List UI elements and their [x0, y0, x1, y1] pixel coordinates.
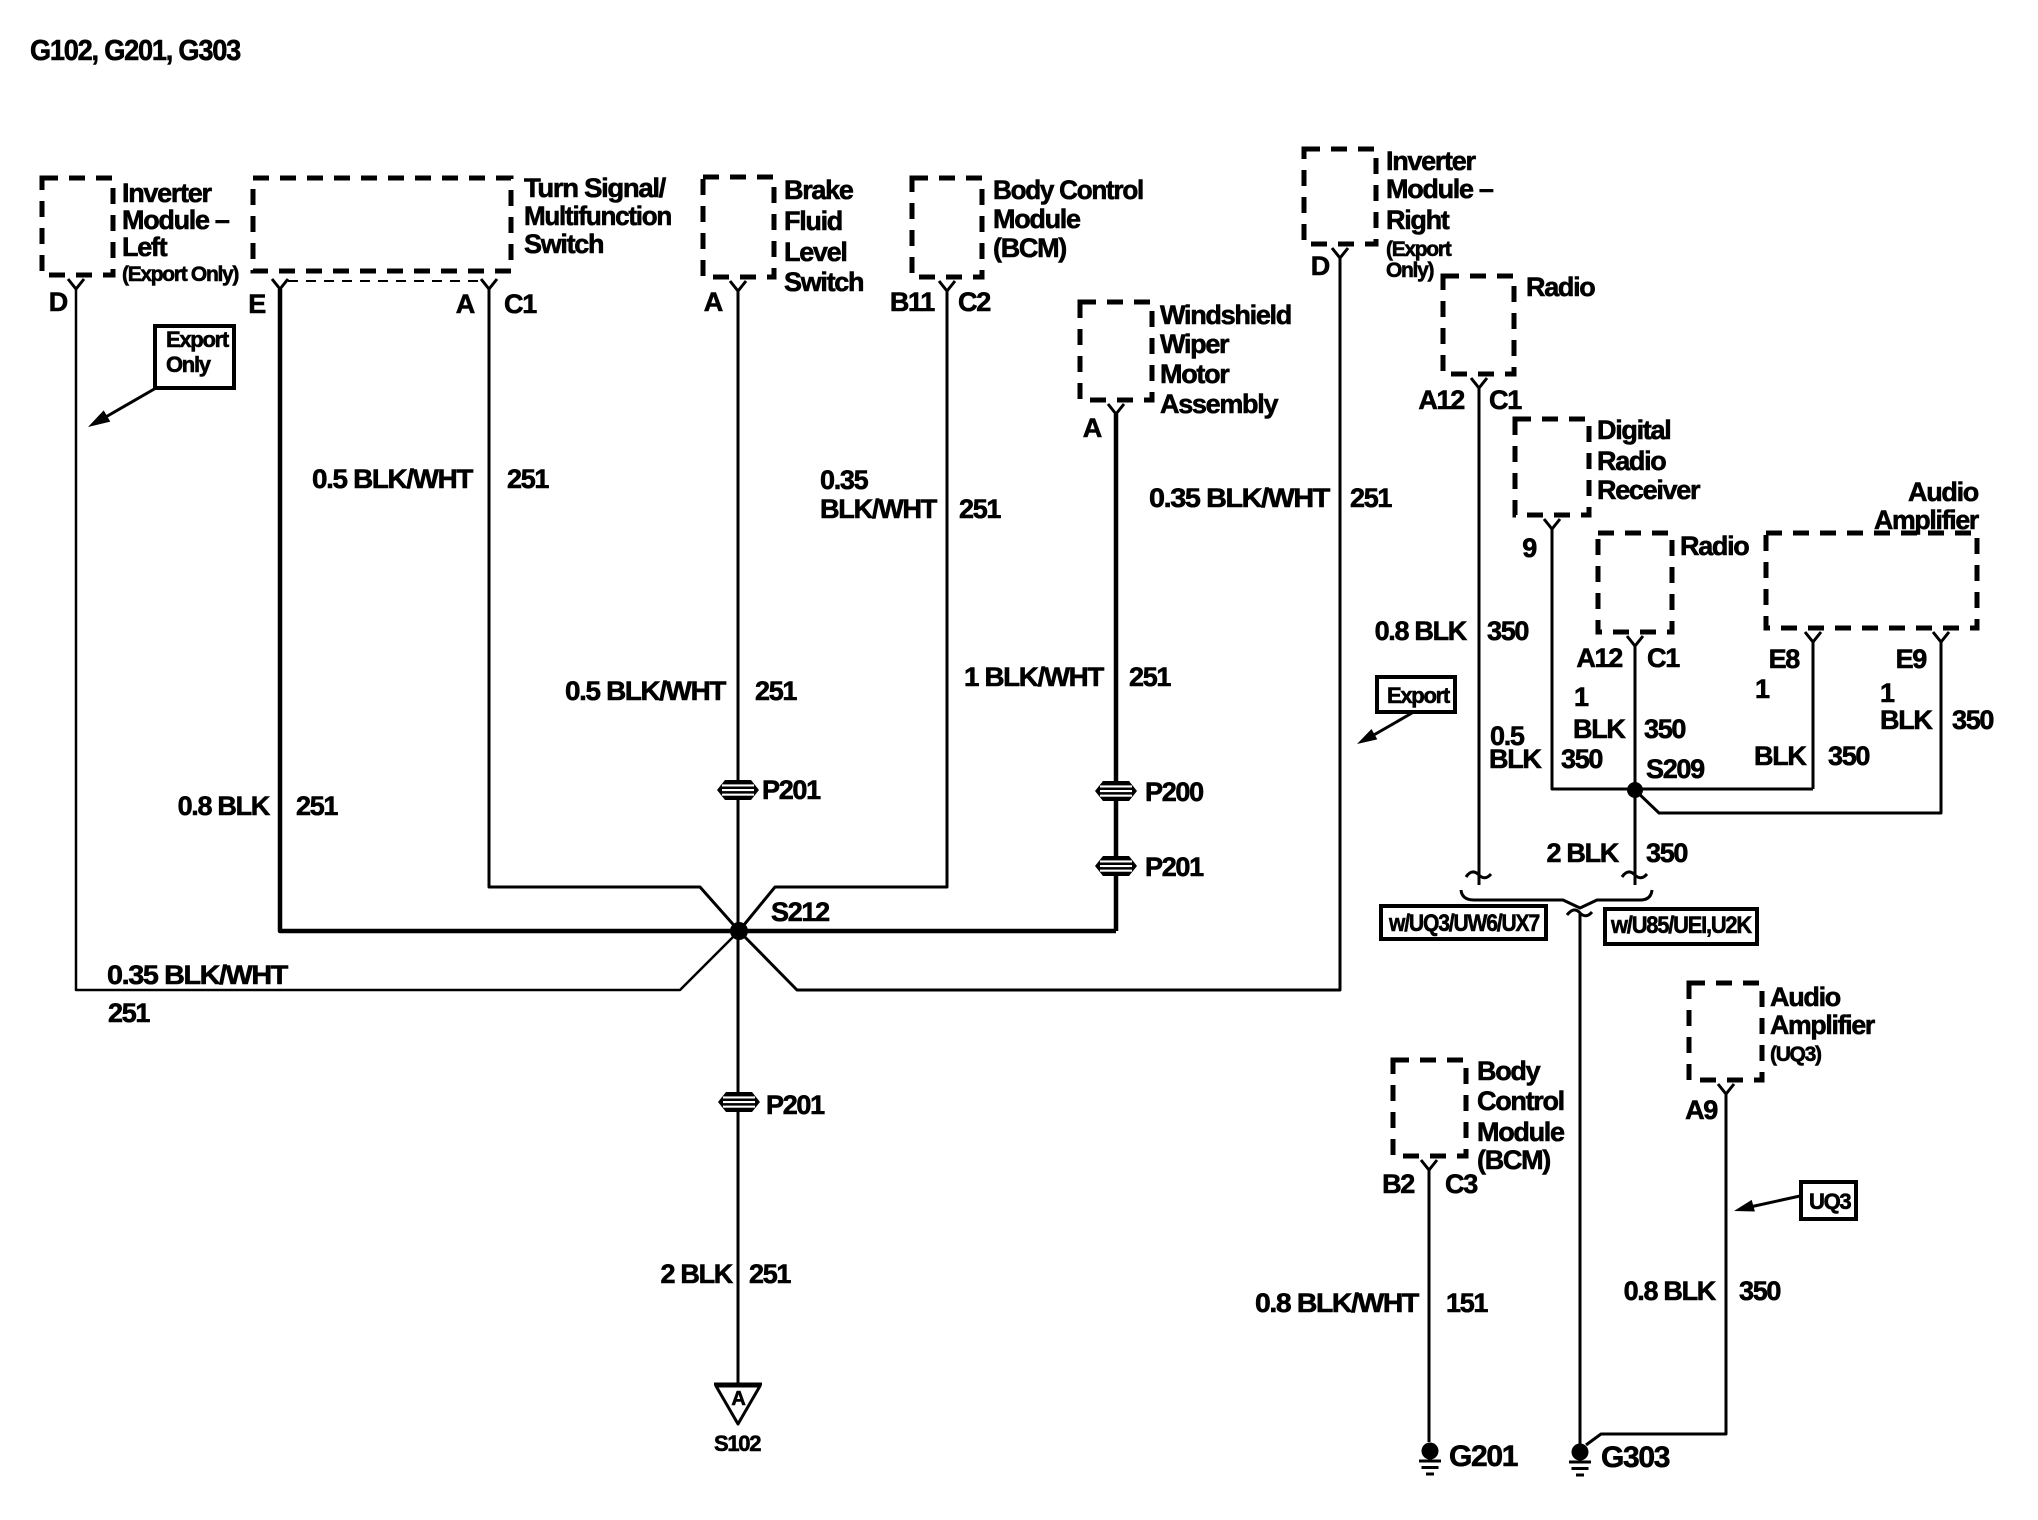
svg-text:(BCM): (BCM) [1477, 1145, 1550, 1175]
svg-text:251: 251 [755, 676, 797, 706]
svg-text:Module: Module [1477, 1117, 1565, 1147]
svg-text:S209: S209 [1646, 754, 1705, 784]
svg-text:251: 251 [296, 791, 338, 821]
svg-text:350: 350 [1561, 744, 1602, 774]
svg-text:E8: E8 [1769, 644, 1801, 674]
svg-text:B11: B11 [890, 287, 935, 317]
svg-text:2 BLK: 2 BLK [660, 1259, 733, 1289]
svg-text:251: 251 [749, 1259, 791, 1289]
svg-text:Receiver: Receiver [1597, 475, 1701, 505]
svg-text:A: A [456, 289, 475, 319]
svg-text:A12: A12 [1418, 385, 1464, 415]
svg-text:350: 350 [1828, 741, 1869, 771]
svg-text:Only): Only) [1386, 259, 1433, 282]
svg-text:Wiper: Wiper [1160, 329, 1230, 359]
svg-text:Motor: Motor [1160, 359, 1230, 389]
svg-text:0.8 BLK/WHT: 0.8 BLK/WHT [1255, 1288, 1420, 1318]
svg-text:G102, G201, G303: G102, G201, G303 [30, 35, 241, 67]
svg-text:BLK: BLK [1573, 714, 1626, 744]
svg-text:Body Control: Body Control [993, 175, 1143, 205]
svg-text:P201: P201 [1145, 852, 1204, 882]
svg-text:A: A [1083, 413, 1102, 443]
svg-text:Inverter: Inverter [1386, 146, 1476, 176]
svg-text:D: D [49, 287, 68, 317]
svg-text:350: 350 [1739, 1276, 1780, 1306]
svg-text:C3: C3 [1445, 1169, 1478, 1199]
svg-text:Radio: Radio [1680, 531, 1749, 561]
svg-text:A: A [731, 1388, 745, 1410]
svg-text:Module: Module [993, 204, 1081, 234]
svg-text:0.8 BLK: 0.8 BLK [1624, 1276, 1717, 1306]
svg-text:0.35 BLK/WHT: 0.35 BLK/WHT [107, 960, 289, 990]
svg-text:P200: P200 [1145, 777, 1203, 807]
svg-text:Radio: Radio [1526, 272, 1595, 302]
svg-text:251: 251 [959, 494, 1001, 524]
svg-text:0.35: 0.35 [820, 465, 869, 495]
svg-text:Control: Control [1477, 1086, 1564, 1116]
svg-text:(Export Only): (Export Only) [122, 263, 238, 286]
svg-text:251: 251 [507, 464, 549, 494]
svg-text:G201: G201 [1449, 1440, 1518, 1473]
svg-text:D: D [1311, 251, 1330, 281]
svg-text:w/U85/UEI,U2K: w/U85/UEI,U2K [1610, 912, 1753, 939]
svg-text:S212: S212 [771, 897, 829, 927]
svg-text:w/UQ3/UW6/UX7: w/UQ3/UW6/UX7 [1388, 910, 1540, 937]
svg-text:0.5 BLK/WHT: 0.5 BLK/WHT [565, 676, 727, 706]
svg-text:350: 350 [1644, 714, 1685, 744]
svg-text:Digital: Digital [1597, 415, 1670, 445]
svg-text:0.5 BLK/WHT: 0.5 BLK/WHT [312, 464, 474, 494]
svg-text:Assembly: Assembly [1160, 389, 1278, 419]
svg-text:Audio: Audio [1908, 477, 1979, 507]
svg-text:A: A [704, 287, 723, 317]
svg-text:Export: Export [166, 327, 230, 352]
svg-text:P201: P201 [766, 1090, 825, 1120]
svg-text:C1: C1 [1489, 385, 1522, 415]
svg-text:C1: C1 [1647, 643, 1680, 673]
svg-text:BLK: BLK [1489, 744, 1542, 774]
svg-text:Brake: Brake [784, 175, 854, 205]
svg-text:Right: Right [1386, 205, 1450, 235]
svg-text:251: 251 [1350, 483, 1392, 513]
svg-text:2 BLK: 2 BLK [1546, 838, 1619, 868]
svg-text:1: 1 [1574, 682, 1589, 712]
svg-text:Multifunction: Multifunction [524, 201, 671, 231]
svg-text:BLK/WHT: BLK/WHT [820, 494, 938, 524]
svg-text:(UQ3): (UQ3) [1770, 1043, 1821, 1066]
svg-text:C1: C1 [504, 289, 537, 319]
svg-text:0.8 BLK: 0.8 BLK [1375, 616, 1468, 646]
svg-text:(Export: (Export [1386, 238, 1452, 261]
svg-text:B2: B2 [1382, 1169, 1414, 1199]
svg-text:Amplifier: Amplifier [1770, 1010, 1876, 1040]
svg-text:Switch: Switch [524, 229, 603, 259]
svg-text:Fluid: Fluid [784, 206, 842, 236]
svg-text:1 BLK/WHT: 1 BLK/WHT [964, 662, 1105, 692]
svg-text:Switch: Switch [784, 267, 863, 297]
svg-text:(BCM): (BCM) [993, 233, 1066, 263]
svg-text:1: 1 [1755, 674, 1770, 704]
svg-text:BLK: BLK [1880, 705, 1933, 735]
svg-text:Windshield: Windshield [1160, 300, 1291, 330]
svg-text:Body: Body [1477, 1056, 1541, 1086]
svg-text:A9: A9 [1685, 1095, 1718, 1125]
svg-text:Module –: Module – [122, 205, 230, 235]
svg-text:1: 1 [1880, 678, 1895, 708]
svg-text:Level: Level [784, 237, 847, 267]
svg-text:350: 350 [1487, 616, 1528, 646]
svg-text:S102: S102 [714, 1431, 761, 1456]
svg-text:Module –: Module – [1386, 174, 1494, 204]
svg-text:151: 151 [1446, 1288, 1488, 1318]
svg-text:Amplifier: Amplifier [1874, 505, 1980, 535]
svg-text:350: 350 [1952, 705, 1993, 735]
svg-text:A12: A12 [1576, 643, 1622, 673]
svg-text:Radio: Radio [1597, 446, 1666, 476]
svg-text:0.8 BLK: 0.8 BLK [178, 791, 271, 821]
svg-text:9: 9 [1522, 533, 1537, 563]
svg-text:G303: G303 [1601, 1441, 1670, 1474]
svg-text:UQ3: UQ3 [1809, 1189, 1851, 1214]
svg-text:0.35 BLK/WHT: 0.35 BLK/WHT [1149, 483, 1331, 513]
svg-text:Only: Only [166, 352, 212, 377]
svg-text:P201: P201 [762, 775, 821, 805]
svg-text:Export: Export [1387, 683, 1451, 708]
svg-text:BLK: BLK [1754, 741, 1807, 771]
svg-text:251: 251 [1129, 662, 1171, 692]
svg-text:251: 251 [108, 998, 150, 1028]
svg-text:350: 350 [1646, 838, 1687, 868]
svg-text:E9: E9 [1896, 644, 1928, 674]
svg-text:Audio: Audio [1770, 982, 1841, 1012]
svg-text:Inverter: Inverter [122, 178, 212, 208]
svg-text:Left: Left [122, 232, 168, 262]
svg-text:Turn Signal/: Turn Signal/ [524, 173, 667, 203]
svg-text:E: E [248, 289, 265, 319]
svg-text:C2: C2 [958, 287, 990, 317]
